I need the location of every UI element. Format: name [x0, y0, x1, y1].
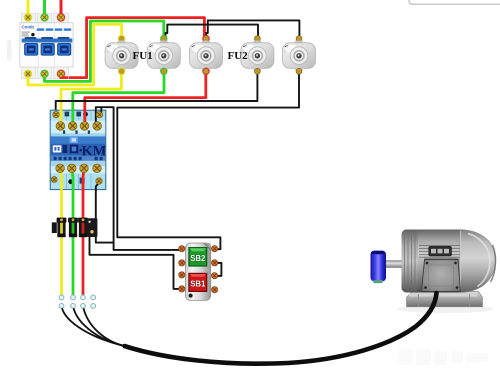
contactor bottom edge marks	[68, 179, 73, 184]
svg-text:SB2: SB2	[190, 254, 206, 263]
motor feed curves from terminals	[62, 308, 125, 346]
wire black latch node: contactor pole4 top over to vertical and down to SB2 left-top terminal	[96, 107, 182, 250]
wire L2 green supply drop to breaker	[43, 0, 46, 15]
wire yellow breaker bottom to fuse1 top (up-and-over)	[28, 24, 122, 85]
wire black jumper fuse3 top to fuse5 top	[206, 20, 299, 38]
contactor top edge marks	[65, 112, 70, 117]
breaker terminal screws top	[24, 14, 64, 21]
relay clamp bottom plates	[57, 234, 65, 237]
contactor terminal screws row 1	[56, 122, 101, 131]
contactor tick marks under top screws	[63, 130, 90, 133]
circuit breaker QF body	[20, 13, 73, 79]
relay clamp screws	[60, 218, 63, 221]
fuse FU1-1	[105, 35, 138, 74]
contactor label strip navy blocks	[63, 145, 68, 153]
relay pole wires visible through clamps	[60, 223, 63, 234]
push button station SB panel	[186, 243, 211, 300]
fuse FU2-1	[241, 36, 274, 75]
contactor edge screws	[53, 111, 59, 117]
motor cylinder body	[402, 230, 464, 293]
faint watermark left edge	[7, 40, 12, 61]
wire L3 red supply drop to breaker	[60, 0, 63, 15]
motor cable	[125, 293, 437, 364]
wire black short leg to contactor aux top terminal	[100, 107, 102, 114]
wire black fuse4 bottom to contactor coil terminal A1	[56, 71, 258, 114]
motor left end bell with fins	[402, 230, 419, 293]
wire stubs over contactor strips	[60, 110, 101, 192]
svg-text:SB1: SB1	[190, 279, 206, 288]
breaker blue band	[22, 39, 73, 43]
terminal strip XT dots	[59, 295, 96, 308]
breaker small print	[22, 32, 31, 37]
wire green fuse2 bottom to contactor terminal 2	[73, 71, 164, 126]
wire black fuse5 bottom down-left-down to SB2 right-top terminal	[117, 71, 299, 249]
wire red fuse3 bottom to contactor terminal 3	[85, 71, 206, 126]
breaker toggle handles	[25, 43, 71, 55]
wire yellow contactor bottom 1 through relay to terminal row	[60, 168, 61, 297]
breaker blue dashes	[37, 28, 71, 30]
motor junction box	[424, 258, 459, 263]
contactor KM body	[50, 110, 106, 189]
thermal relay FR	[52, 218, 98, 237]
motor M shadow	[397, 305, 493, 313]
wire green contactor bottom 2 through relay to terminal row	[72, 168, 73, 297]
fuse FU1-3	[190, 35, 223, 74]
motor shaft	[386, 260, 403, 268]
breaker indicator dot	[31, 33, 34, 36]
wire stubs over breaker tabs	[28, 0, 68, 85]
stop button SB1 red	[188, 273, 207, 292]
faint watermark bottom right	[398, 349, 488, 365]
wire yellow fuse1 bottom to contactor terminal 1	[61, 71, 121, 126]
breaker terminal screws bottom	[24, 70, 64, 77]
motor base	[407, 292, 483, 307]
fuse FU1-2	[147, 35, 180, 74]
relay detail dots	[90, 230, 93, 233]
fuse FU2-2	[283, 36, 316, 75]
contactor label strip white box	[53, 145, 62, 152]
contactor terminal screws row 2	[56, 164, 101, 173]
svg-text:FU2: FU2	[228, 50, 249, 62]
wire black relay right terminal to SB1 left-bottom terminal	[90, 235, 182, 289]
wire green breaker bottom to fuse2 top (up-and-over)	[45, 21, 164, 81]
wire L1 yellow supply drop to breaker	[27, 0, 30, 15]
contactor marks row	[54, 157, 103, 160]
motor front cap	[460, 230, 495, 293]
motor body fins	[419, 246, 461, 258]
wire black jumper SB2 right-bottom to SB1 right-top	[215, 263, 222, 276]
motor name plate	[429, 246, 452, 256]
wire red contactor bottom 3 through relay to terminal row	[83, 168, 84, 297]
SB station terminal screws	[179, 246, 218, 293]
motor pulley (blue)	[371, 251, 387, 282]
wire black jumper fuse2 top to fuse4 top	[166, 25, 259, 38]
gray panel corner top-right	[409, 0, 500, 4]
wire red breaker bottom to fuse3 top (up-and-over)	[61, 18, 204, 78]
SB station bottom dot	[189, 294, 193, 298]
contactor strip details	[70, 137, 78, 143]
svg-text:FU1: FU1	[133, 50, 153, 62]
wire black contactor aux bottom terminal joining latch vertical	[96, 183, 114, 243]
start button SB2 green	[188, 247, 207, 267]
svg-text:Cnmb: Cnmb	[22, 25, 35, 30]
